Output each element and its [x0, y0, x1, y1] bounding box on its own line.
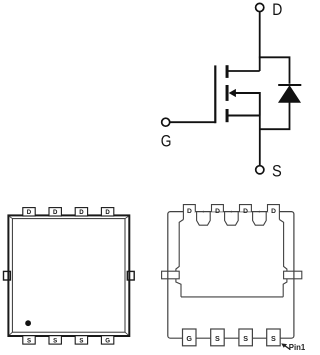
package top view: pin 2 S box	[49, 336, 61, 344]
svg-text:S: S	[27, 337, 31, 344]
package top view: corner chamfer bottom-left	[9, 332, 12, 335]
svg-text:G: G	[105, 337, 110, 344]
wire: drain stub to channel drain bar	[229, 70, 260, 72]
package top view: inner body edge	[12, 219, 125, 333]
package bottom view: top edge tick 2	[231, 211, 233, 213]
package top view: pin 8 D box	[23, 208, 35, 216]
package top view: pin 3 S box	[75, 336, 87, 344]
MOSFET Q1 body channel bar	[226, 85, 229, 101]
package bottom view: right side tab	[284, 271, 302, 279]
svg-text:D: D	[53, 209, 58, 216]
svg-text:Pin1: Pin1	[289, 343, 306, 352]
terminal G circle	[162, 118, 170, 126]
package top view: corner chamfer top-left	[9, 216, 12, 218]
package top view: pin 7 D box	[49, 208, 61, 216]
wire: source node down to S terminal	[259, 116, 261, 166]
svg-text:G: G	[186, 334, 192, 343]
wire: body connection to source node	[235, 93, 260, 116]
package bottom view: Pin1 pointer arrow	[285, 346, 290, 350]
package top view: corner chamfer top-right	[125, 216, 128, 218]
package bottom view: pin D2 box	[212, 205, 224, 212]
package top view: pin 4 G box	[101, 336, 113, 344]
wire: drain node to diode cathode	[259, 57, 290, 84]
svg-text:D: D	[27, 209, 32, 216]
package bottom view: outer body outline	[168, 212, 294, 339]
package top view: left side tab	[4, 271, 11, 280]
svg-text:D: D	[79, 209, 84, 216]
svg-text:S: S	[271, 334, 276, 343]
package top view: outer body outline	[8, 215, 129, 336]
package bottom view: pin S2 box	[239, 329, 253, 346]
package bottom view: pin S3 box	[267, 329, 281, 346]
package bottom view: pad notch between pin D1 and D2	[197, 212, 211, 226]
package bottom view: pin G box	[183, 329, 197, 346]
package bottom view: pad notch between pin D3 and D4	[253, 212, 267, 226]
svg-text:D: D	[243, 208, 248, 215]
package top view: pin 6 D box	[75, 208, 87, 216]
package bottom view: pin D1 box	[183, 205, 195, 220]
MOSFET Q1 source channel bar	[226, 109, 229, 122]
svg-text:S: S	[243, 334, 248, 343]
svg-text:D: D	[271, 208, 276, 215]
diode D1 anode triangle	[279, 86, 300, 102]
package top view: right side tab	[127, 271, 134, 280]
svg-text:D: D	[272, 1, 282, 19]
package bottom view: pin D3 box	[240, 205, 252, 212]
package bottom view: top edge tick 1	[203, 211, 205, 213]
package top view: pin 1 S box	[23, 336, 35, 344]
svg-text:S: S	[215, 334, 220, 343]
package bottom view: left side tab	[162, 271, 180, 279]
MOSFET Q1 body arrowhead	[229, 89, 236, 97]
wire: D terminal down to drain stub	[259, 12, 261, 71]
svg-text:S: S	[79, 337, 83, 344]
package bottom view: drain pad left edge	[176, 220, 184, 297]
svg-text:D: D	[187, 208, 192, 215]
package bottom view: pin S1 box	[211, 329, 225, 346]
package bottom view: drain pad right edge	[279, 220, 287, 297]
MOSFET Q1 drain channel bar	[226, 65, 229, 78]
wire: G terminal to gate pole	[170, 121, 216, 123]
terminal S circle	[256, 166, 264, 174]
package top view: pin 5 D box	[101, 208, 113, 216]
terminal D circle	[256, 3, 264, 11]
package bottom view: drain pad bottom edge	[181, 296, 283, 298]
svg-text:S: S	[272, 163, 282, 181]
package bottom view: top edge tick 3	[259, 211, 261, 213]
svg-text:S: S	[53, 337, 57, 344]
diode D1 cathode bar	[278, 84, 301, 86]
wire: source bar to source node	[229, 115, 260, 117]
svg-text:D: D	[215, 208, 220, 215]
package top view: corner chamfer bottom-right	[125, 332, 128, 335]
MOSFET Q1 gate pole	[214, 65, 216, 123]
svg-text:D: D	[105, 209, 110, 216]
svg-text:G: G	[161, 132, 172, 151]
wire: diode anode to source node	[260, 102, 290, 129]
package bottom view: pin D4 box	[268, 205, 280, 220]
package top view: pin 1 indicator dot	[25, 320, 31, 326]
package bottom view: pad notch between pin D2 and D3	[225, 212, 239, 226]
